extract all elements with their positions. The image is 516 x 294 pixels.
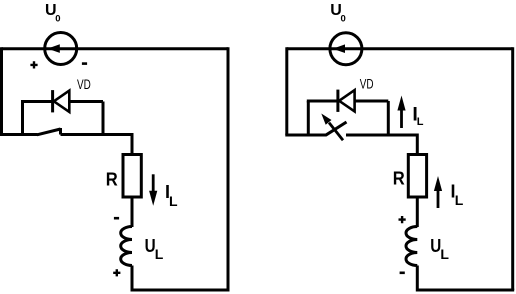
label R (right)	[393, 169, 405, 189]
label - (left source)	[82, 62, 87, 65]
wire: diode branch left vertical	[21, 102, 24, 135]
arrow IL (right, up, near diode)	[397, 96, 405, 129]
resistor R (left)	[123, 155, 141, 198]
svg-text:L: L	[417, 116, 424, 128]
svg-text:0: 0	[341, 14, 346, 25]
svg-text:L: L	[455, 192, 464, 208]
switch S2 (right, opening, with cross)	[321, 114, 346, 141]
label - (right inductor bottom)	[400, 271, 405, 274]
label + (right inductor top)	[399, 216, 406, 223]
wire: right diode branch right vertical	[387, 101, 390, 135]
inductor L1 (left)	[121, 227, 132, 266]
label R (left)	[106, 169, 118, 189]
wire: right diode branch top right segment	[355, 100, 389, 103]
voltage source U1 (left)	[45, 33, 77, 65]
label UL (left)	[145, 236, 164, 262]
arrow IL (right, up, near R)	[434, 176, 442, 208]
wire: switch branch left segment	[0, 133, 38, 136]
label + (left source)	[30, 61, 37, 68]
wire: left loop bottom	[132, 289, 230, 292]
voltage source U2 (right)	[330, 33, 362, 65]
wire: switch to R corner	[61, 133, 133, 136]
wire: corner down to resistor	[131, 133, 134, 156]
wire: right switch branch left segment	[285, 134, 326, 137]
label VD (right)	[360, 75, 374, 91]
wire: right switch to R corner	[346, 134, 417, 137]
wire: left loop left side	[0, 47, 3, 134]
wire: right diode branch top left segment	[307, 100, 338, 103]
wire: inductor to bottom	[131, 266, 134, 292]
label VD (left)	[77, 76, 91, 92]
inductor L2 (right)	[406, 227, 417, 266]
svg-text:R: R	[106, 169, 118, 189]
switch S1 (left, open blade)	[37, 128, 61, 135]
diode VD (left, pointing left)	[53, 90, 70, 112]
wire: diode branch right vertical	[102, 102, 105, 135]
label - (left inductor top)	[114, 217, 119, 220]
wire: resistor to inductor	[131, 197, 134, 227]
label UL (right)	[430, 236, 449, 262]
svg-text:L: L	[169, 193, 178, 209]
wire: right loop bottom	[417, 289, 514, 292]
wire: right resistor to inductor	[416, 197, 419, 227]
label IL (right, near diode)	[412, 104, 423, 128]
resistor R (right)	[408, 155, 426, 198]
svg-text:0: 0	[55, 14, 60, 25]
wire: diode branch top right segment	[69, 100, 103, 103]
wire: right diode branch left vertical	[307, 101, 310, 135]
svg-text:VD: VD	[77, 76, 91, 92]
arrow IL (left, down)	[149, 174, 157, 206]
wire: right inductor to bottom	[416, 266, 419, 292]
wire: right loop right side	[511, 47, 514, 290]
diode VD (right, pointing left)	[338, 90, 355, 112]
label IL (left, near R)	[165, 182, 178, 209]
wire: left loop right side	[227, 47, 230, 290]
wire: left loop top	[2, 47, 229, 50]
label IL (right, near R)	[451, 182, 464, 208]
wire: right corner down to resistor	[416, 134, 419, 157]
label U0 (left source)	[45, 2, 61, 25]
svg-text:L: L	[155, 246, 164, 262]
svg-text:L: L	[440, 246, 449, 262]
svg-text:VD: VD	[360, 75, 374, 91]
wire: diode branch top left segment	[21, 100, 52, 103]
wire: right loop top	[287, 47, 513, 50]
label U0 (right source)	[330, 2, 346, 25]
label + (left inductor bottom)	[113, 269, 120, 276]
wire: right loop left side	[285, 47, 288, 135]
svg-text:R: R	[393, 169, 405, 189]
